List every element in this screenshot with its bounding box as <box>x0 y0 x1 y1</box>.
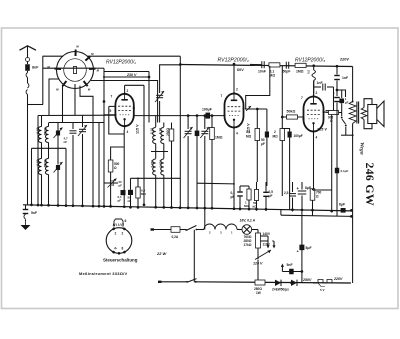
wire socket crossing <box>43 67 93 69</box>
wire 331 down <box>331 190 333 211</box>
control socket circle <box>106 228 132 254</box>
junction <box>162 206 165 209</box>
svg-text:140V: 140V <box>263 232 271 236</box>
svg-text:250Ω: 250Ω <box>166 128 170 136</box>
wire anode tube1 <box>124 85 126 90</box>
junction <box>211 207 214 210</box>
svg-text:0,02: 0,02 <box>36 159 40 165</box>
resistor 900ohm <box>324 111 329 114</box>
capacitor 8uF electrolytic <box>301 182 303 190</box>
junction <box>255 208 258 211</box>
capacitor 50pF <box>285 62 287 69</box>
junction 500 <box>109 205 112 208</box>
svg-text:2: 2 <box>316 91 318 95</box>
junction <box>301 209 304 212</box>
wire socket to rail <box>43 55 63 57</box>
antenna <box>20 46 37 50</box>
wire af arrow <box>246 106 251 111</box>
junction subs <box>129 206 132 209</box>
fuse 0.2A <box>171 227 180 233</box>
capacitor 5nF psu <box>282 271 302 273</box>
trimmer C7 row2 <box>56 165 60 170</box>
svg-text:2×EW50/μs: 2×EW50/μs <box>272 288 289 292</box>
junction right bus <box>352 134 354 136</box>
svg-text:pF: pF <box>119 183 123 187</box>
wire af h y109 <box>245 108 267 110</box>
diode D2 <box>291 280 297 286</box>
junction right bus rails <box>350 209 353 212</box>
junction <box>196 207 199 210</box>
svg-text:MΩ: MΩ <box>273 135 279 139</box>
capacitor 50uF <box>265 132 269 138</box>
wire secondary top <box>364 99 372 108</box>
wire y178 <box>131 177 181 179</box>
svg-text:Ω: Ω <box>114 166 117 170</box>
junction <box>40 204 43 207</box>
wire tube1 grid row <box>38 114 115 116</box>
wire T2 drops <box>41 175 43 205</box>
resistor 0.5M <box>136 187 140 198</box>
right bus <box>352 67 354 102</box>
svg-text:250Ω: 250Ω <box>44 127 48 135</box>
svg-text:8μF: 8μF <box>339 203 345 207</box>
resistor 1M <box>210 128 215 140</box>
capacitor 0.1uF <box>239 186 241 191</box>
svg-text:μF: μF <box>345 100 349 104</box>
trimmer C12 <box>201 130 208 132</box>
capacitor 1uF tone <box>341 90 343 98</box>
wire socket left 2 <box>49 79 59 116</box>
wire choke to lamp <box>237 229 242 231</box>
IF coil T3a <box>153 128 156 144</box>
resistor 0.1M <box>269 63 280 67</box>
svg-text:μF: μF <box>269 194 273 198</box>
wire v x2823 low <box>281 117 283 129</box>
svg-text:nF: nF <box>64 140 68 144</box>
svg-text:230 V: 230 V <box>126 73 137 77</box>
wire x337 to rail <box>336 107 338 216</box>
svg-text:0,0: 0,0 <box>307 69 311 74</box>
ground bus right <box>230 209 351 211</box>
svg-text:10nF: 10nF <box>258 70 266 74</box>
svg-text:7: 7 <box>221 94 223 98</box>
junction <box>336 89 339 92</box>
tube V1 RV12P2000/1 <box>115 94 133 126</box>
resistor 500ohm <box>108 160 113 172</box>
junction <box>203 207 206 210</box>
svg-text:250Ω: 250Ω <box>44 159 48 167</box>
svg-text:0,1: 0,1 <box>246 130 251 134</box>
wire tube1 cathode down <box>123 130 125 205</box>
svg-text:100μF: 100μF <box>202 108 212 112</box>
svg-text:2,5: 2,5 <box>284 191 289 195</box>
capacitor 10nF <box>261 61 263 68</box>
wire 230V lower <box>104 76 149 78</box>
svg-text:8: 8 <box>122 247 124 251</box>
svg-text:2: 2 <box>274 130 276 134</box>
svg-text:50pF: 50pF <box>283 70 291 74</box>
IF coil T2a <box>38 159 41 175</box>
svg-text:0,000: 0,000 <box>158 160 162 168</box>
mains wire 2 <box>158 281 162 283</box>
svg-text:1MΩ: 1MΩ <box>215 136 223 140</box>
junction rail <box>233 63 236 66</box>
svg-text:RV12P2000/₂: RV12P2000/₂ <box>218 58 249 64</box>
svg-text:22 W: 22 W <box>156 251 168 256</box>
capacitor 100uF k <box>288 132 292 138</box>
wire hbus y122 left <box>56 122 96 124</box>
svg-text:7: 7 <box>301 96 303 100</box>
capacitor 8uF on bus <box>341 208 346 213</box>
top rail <box>180 65 352 67</box>
resistor r2 row <box>254 190 258 201</box>
IF coil T3b <box>161 128 164 144</box>
wire socket center down <box>74 84 76 116</box>
variable capacitor C-osc <box>156 94 163 96</box>
wire crown to socket <box>113 226 115 229</box>
junction <box>154 206 157 209</box>
junction <box>179 206 182 209</box>
svg-text:17kΩ: 17kΩ <box>244 243 252 247</box>
capacitor C4 <box>70 130 77 132</box>
wire IF coupling <box>32 147 67 149</box>
wire switch right <box>196 229 204 231</box>
junction <box>239 207 242 210</box>
capacitor 8nF <box>25 64 30 71</box>
svg-text:8nF: 8nF <box>32 66 39 70</box>
resistor 0.1M v <box>255 129 260 141</box>
svg-text:2: 2 <box>114 231 116 235</box>
svg-text:0,10: 0,10 <box>158 128 162 134</box>
tone switch <box>341 113 343 117</box>
svg-text:• •: • • <box>114 247 117 251</box>
svg-text:246 GW: 246 GW <box>363 163 377 206</box>
wire T4 drops <box>155 175 157 207</box>
junction <box>248 208 251 211</box>
trimmer C5 <box>79 128 86 130</box>
svg-text:1MΩ: 1MΩ <box>296 70 304 74</box>
junction <box>187 206 190 209</box>
wire tube1 left pin <box>104 114 115 116</box>
grid coil L5 <box>313 66 315 70</box>
junction <box>37 204 40 207</box>
svg-text:nF: nF <box>128 199 132 203</box>
svg-text:6: 6 <box>125 219 127 223</box>
transformer secondary <box>361 108 367 120</box>
wire tube3 k h <box>314 189 332 191</box>
wire v x99 <box>98 123 100 205</box>
wire <box>27 71 29 73</box>
IF coil T4a <box>153 159 156 175</box>
wire bus to heater rail <box>280 210 282 216</box>
wire x312 bus to rail <box>312 210 314 216</box>
resistor 1M rail <box>295 63 306 67</box>
tube V2 RV12P2000/2 <box>225 94 244 128</box>
tube V3 RV12P2000/3 <box>304 97 324 132</box>
svg-text:μF: μF <box>231 195 235 199</box>
trimmer C10 <box>185 130 192 132</box>
wire tube3 cathode <box>313 132 315 191</box>
svg-text:100μF: 100μF <box>294 134 303 138</box>
wire tube1 U loop <box>109 106 124 134</box>
wire hbus y122 mid <box>49 122 104 124</box>
resistor 50k grid <box>287 115 298 119</box>
svg-text:250V: 250V <box>302 278 312 282</box>
svg-text:4: 4 <box>127 130 129 134</box>
junction <box>92 205 95 208</box>
svg-text:5nF: 5nF <box>31 211 37 215</box>
svg-text:Steuerschaltung: Steuerschaltung <box>103 258 138 263</box>
wire 337 corner <box>337 90 346 97</box>
tube socket top view <box>57 52 94 89</box>
capacitor 1nF rail <box>336 66 338 74</box>
svg-text:0,000: 0,000 <box>150 160 154 168</box>
wire varcap top <box>160 65 181 93</box>
bottom bus <box>196 282 351 283</box>
ground symbol <box>25 221 27 225</box>
junction <box>265 208 268 211</box>
transformer core <box>356 102 358 124</box>
junction <box>281 116 284 119</box>
svg-text:2: 2 <box>122 231 124 235</box>
junction <box>65 204 68 207</box>
resistor r1 row <box>247 189 251 200</box>
capacitor 2.5nF row <box>292 186 294 192</box>
svg-text:0,1μF: 0,1μF <box>341 169 349 173</box>
capacitor 1nF grid3 <box>314 86 321 88</box>
wire T3 drops <box>155 144 157 152</box>
svg-text:4: 4 <box>236 132 238 136</box>
IF coil T1a <box>38 127 41 143</box>
heater rail lower <box>281 215 351 216</box>
junction <box>81 205 84 208</box>
IF coil T4b <box>161 159 164 175</box>
wire tube2 top <box>233 65 235 90</box>
speaker <box>368 105 377 124</box>
capacitor 0.1uF tone col <box>335 168 339 174</box>
wire y183 <box>197 182 234 185</box>
svg-text:Ω: Ω <box>316 194 319 198</box>
wire mains stub <box>154 229 172 231</box>
svg-text:RV12P2000/₃: RV12P2000/₃ <box>295 58 325 64</box>
wire 50k to grid <box>282 116 303 118</box>
wire T1 drops <box>41 143 43 149</box>
svg-text:225 V: 225 V <box>316 128 327 132</box>
capacitor 0.1uF cath <box>121 190 126 195</box>
wire row top a <box>240 185 249 187</box>
wire socket left col <box>42 56 44 104</box>
svg-text:0,10: 0,10 <box>150 128 154 134</box>
wire tube3 anode <box>313 81 315 94</box>
capacitor 1uF a <box>336 90 338 96</box>
capacitor C11 <box>195 131 200 137</box>
svg-text:Wega: Wega <box>359 142 365 155</box>
pilot lamp <box>242 225 252 235</box>
ground bus <box>23 205 230 209</box>
wire anode row <box>125 84 144 86</box>
svg-text:RV12P2000/₁: RV12P2000/₁ <box>106 60 136 66</box>
wire v x180 <box>179 56 181 207</box>
junction <box>311 209 314 212</box>
svg-text:MΩ: MΩ <box>270 74 276 78</box>
svg-text:18V, 0,1 A: 18V, 0,1 A <box>240 219 256 223</box>
junction <box>57 204 60 207</box>
wire socket bottom a <box>62 85 64 123</box>
IF coil T1b <box>45 127 48 143</box>
diode D1 <box>275 280 281 286</box>
capacitor 8uF psu <box>301 212 303 283</box>
junction <box>47 204 50 207</box>
resistor 50k v <box>280 129 285 141</box>
junction <box>330 210 333 213</box>
svg-text:7: 7 <box>111 95 113 99</box>
svg-text:MΩ: MΩ <box>141 192 146 196</box>
junction <box>170 206 173 209</box>
wire right bus low <box>352 124 354 284</box>
resistor 280ohm 1W <box>255 280 265 285</box>
wire secondary bottom <box>364 120 372 129</box>
junction <box>72 204 75 207</box>
svg-text:220V: 220V <box>339 58 349 62</box>
svg-text:MΩ: MΩ <box>244 204 249 208</box>
plug hooks <box>26 73 28 78</box>
wire lamp right <box>252 229 258 231</box>
svg-text:μF: μF <box>118 199 122 203</box>
junction <box>123 205 126 208</box>
switch S1 <box>186 226 196 231</box>
svg-text:2: 2 <box>127 89 129 93</box>
svg-text:220V: 220V <box>333 277 343 281</box>
wire antenna to input <box>28 104 44 106</box>
svg-text:115 V: 115 V <box>136 124 140 134</box>
wire switch down <box>193 230 195 282</box>
trimmer C3 <box>56 131 60 136</box>
svg-text:1W: 1W <box>256 291 261 295</box>
capacitor 0.5uF <box>265 182 267 192</box>
junction y183 <box>233 183 235 185</box>
selector taps <box>261 235 269 237</box>
svg-text:0,02: 0,02 <box>36 127 40 133</box>
svg-text:4: 4 <box>316 136 318 140</box>
junction <box>291 208 294 211</box>
wire 289 top <box>282 128 289 130</box>
svg-text:5nF: 5nF <box>287 263 293 267</box>
resistor 250k <box>169 129 174 141</box>
voltage selector resistor <box>256 233 261 248</box>
wire det <box>246 66 270 109</box>
wire corner x156 <box>91 81 158 123</box>
heater choke L6 <box>204 224 237 229</box>
svg-text:5 V: 5 V <box>320 288 325 292</box>
wire v x153 <box>155 116 157 127</box>
wire left v x38 <box>37 116 39 205</box>
junction tube2 cathode <box>233 207 236 210</box>
junction <box>98 205 101 208</box>
wire row verticals <box>292 182 294 186</box>
svg-text:50kΩ: 50kΩ <box>287 110 296 114</box>
svg-text:MΩ: MΩ <box>246 135 252 139</box>
wire antenna down <box>27 95 29 205</box>
capacitor 5nF ground <box>25 205 27 209</box>
capacitor 50nF <box>128 190 133 195</box>
svg-text:5: 5 <box>110 109 112 113</box>
wire socket bottom b <box>80 86 93 116</box>
transformer primary <box>349 102 356 124</box>
svg-text:1nF: 1nF <box>342 76 348 80</box>
svg-text:0,2A: 0,2A <box>172 235 179 239</box>
svg-text:60V: 60V <box>237 68 244 72</box>
antenna plug P1 <box>26 58 30 62</box>
crown symbol <box>114 219 123 226</box>
wire tube2 cathode <box>233 131 235 209</box>
capacitor 100uF grid <box>134 115 225 117</box>
resistor 700ohm <box>310 189 315 201</box>
svg-text:8μF: 8μF <box>306 246 312 250</box>
IF coil T2b <box>45 159 48 175</box>
svg-text:1nF: 1nF <box>317 81 323 85</box>
selector switch arrow <box>257 248 259 259</box>
svg-text:110V: 110V <box>263 243 271 247</box>
svg-text:Meßinstrument 333Ω/V: Meßinstrument 333Ω/V <box>79 271 128 276</box>
heater resistor ladder <box>313 282 318 284</box>
pickup arrow <box>281 266 283 272</box>
svg-text:2: 2 <box>236 88 238 92</box>
control socket pins <box>112 228 115 231</box>
junction <box>290 281 293 284</box>
wire to 500ohm <box>111 147 125 160</box>
wire 230V rail <box>104 71 149 73</box>
wire v x2823 <box>281 66 283 117</box>
wire selector down <box>257 260 259 283</box>
trimmer C8 <box>110 180 112 186</box>
wire v x93 <box>92 116 94 205</box>
svg-text:μF: μF <box>261 142 265 146</box>
